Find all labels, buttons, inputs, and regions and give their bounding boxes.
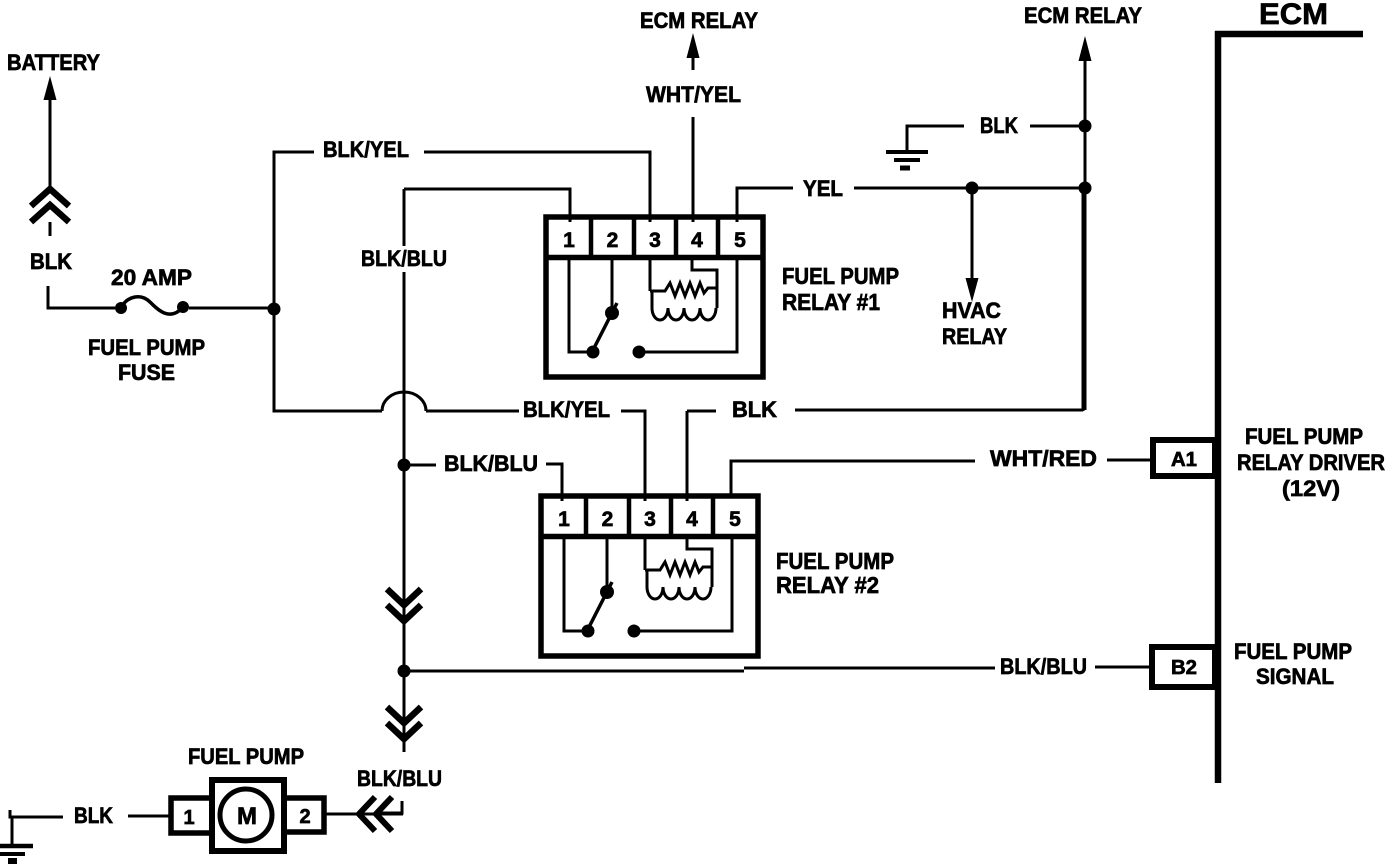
svg-text:BLK: BLK [30,249,72,274]
wire WHT/RED to A1 [1107,459,1151,462]
wire battery drop to fuse [48,286,115,308]
svg-text:2: 2 [299,806,310,828]
svg-text:BLK/BLU: BLK/BLU [361,246,447,271]
relay K1 outer box [546,217,763,377]
svg-text:A1: A1 [1171,449,1197,471]
relay K1 switch blade [592,303,617,352]
relay K1 common contact dot [633,346,646,359]
relay K1 pin4 internal wire [692,260,717,308]
relay K1 terminal row bottom line [546,255,763,261]
arrow to HVAC RELAY [971,194,974,280]
svg-text:SIGNAL: SIGNAL [1256,664,1334,689]
svg-text:4: 4 [686,508,698,531]
wire BLK/BLU to relay2 pin1 [546,464,562,501]
svg-text:BLK/BLU: BLK/BLU [444,451,538,476]
relay K1 coil [652,291,716,320]
wire junction drop to lower feed [274,309,382,411]
wire BLK/YEL to relay2 pin3 [621,411,645,501]
junction node fuse output [268,303,281,316]
inline connector lower (double chevron down) [387,707,421,739]
relay K2 switch lower contact dot [582,625,595,638]
relay K2 pin2 internal wire [606,539,609,589]
wire relay2 pin5 riser to WHT/RED [731,461,975,496]
relay K2 outer box [541,496,758,656]
battery feed arrow [49,97,52,186]
relay K2 common contact dot [628,625,641,638]
fuse F1 terminal dot left [115,302,127,314]
svg-text:RELAY: RELAY [942,324,1007,349]
wire BLK to pump pin1 [128,815,171,818]
fuel pump terminal 1 box [171,798,212,833]
wire ECM relay vertical with arrow [1084,58,1087,410]
fuse terminal dot right [177,301,189,313]
wire BLK/BLU vertical main run [403,272,406,752]
junction node YEL/HVAC [966,182,979,195]
svg-text:BLK/YEL: BLK/YEL [323,137,409,162]
relay K1 pin5 internal wire [645,260,737,352]
svg-text:FUEL PUMP: FUEL PUMP [88,335,205,360]
junction node BLK/BLU tap [398,459,411,472]
svg-text:BLK: BLK [74,803,113,828]
wire BLK label to ECM relay vertical [795,188,1083,411]
svg-text:WHT/RED: WHT/RED [990,446,1097,471]
inline connector (pump side, double chevron left) [359,797,392,831]
wire YEL to ECM relay line [854,187,1085,190]
svg-text:2: 2 [602,508,614,531]
svg-text:ECM: ECM [1259,0,1328,31]
svg-text:BLK/YEL: BLK/YEL [523,397,610,422]
svg-text:RELAY #1: RELAY #1 [782,289,880,315]
relay K2 switch pivot dot [600,585,614,599]
svg-text:FUSE: FUSE [118,360,175,385]
relay K1 pin2 internal wire [611,260,614,310]
svg-text:FUEL PUMP: FUEL PUMP [1245,424,1363,449]
ground (top right) [907,126,964,150]
svg-text:ECM RELAY: ECM RELAY [640,8,758,33]
relay K1 pin3 internal wire [649,260,652,291]
arrow to ECM RELAY (center) [692,56,695,70]
svg-text:BLK: BLK [732,397,777,422]
svg-text:ECM RELAY: ECM RELAY [1024,3,1142,28]
inline connector upper (double chevron down) [387,589,421,621]
svg-text:HVAC: HVAC [942,298,1001,323]
relay K1 switch lower contact dot [587,346,600,359]
relay K2 pin3 internal wire [644,539,647,570]
wire fuse to junction [189,307,274,310]
relay K2 terminal dividers [586,498,713,535]
svg-text:5: 5 [729,508,741,531]
relay K1 coil suppression resistor [650,283,717,296]
svg-text:RELAY #2: RELAY #2 [776,572,879,598]
fuse 20 AMP element [121,297,183,314]
junction node B2 tap [398,665,411,678]
svg-text:RELAY DRIVER: RELAY DRIVER [1237,450,1385,475]
relay K2 pin5 internal wire [640,539,732,631]
svg-text:5: 5 [734,229,746,252]
svg-text:FUEL PUMP: FUEL PUMP [782,263,899,289]
RELAY-2 [541,496,758,656]
svg-text:BLK/BLU: BLK/BLU [357,766,442,791]
svg-text:FUEL PUMP: FUEL PUMP [1234,639,1352,664]
wire BLK/BLU vertical upper segment [403,189,406,246]
svg-text:20 AMP: 20 AMP [111,265,192,290]
svg-text:YEL: YEL [803,176,843,201]
ground (bottom left) [10,810,63,845]
wire connector to riser [381,801,402,813]
svg-text:4: 4 [691,229,703,252]
wire tap to BLK/BLU label [410,464,436,467]
junction node BLK/ECM-relay [1079,120,1092,133]
svg-text:2: 2 [607,229,619,252]
wire hop over BLK/BLU vertical [382,392,426,411]
relay K1 switch pivot dot [605,306,619,320]
relay K2 terminal row bottom line [541,534,758,540]
ECM terminal A1 box [1153,440,1215,476]
svg-text:3: 3 [644,508,656,531]
inline connector (battery side, double chevron up) [31,189,69,222]
svg-text:3: 3 [649,229,661,252]
wire to BLK/YEL label 2 [426,410,519,413]
wire BLK to ECM relay line [1030,125,1085,128]
relay K2 switch blade [587,582,612,631]
svg-text:(12V): (12V) [1282,476,1340,501]
svg-text:FUEL PUMP: FUEL PUMP [188,744,304,769]
svg-text:FUEL PUMP: FUEL PUMP [776,548,894,574]
svg-text:BATTERY: BATTERY [7,50,100,75]
svg-text:1: 1 [558,508,570,531]
svg-text:BLK: BLK [980,113,1018,138]
wire relay1 pin4 riser [692,117,695,222]
svg-text:1: 1 [563,229,575,252]
relay K2 coil suppression resistor [645,562,712,575]
relay K1 terminal dividers [591,219,718,256]
RELAY-1 [546,217,763,377]
svg-text:M: M [237,803,257,830]
svg-text:WHT/YEL: WHT/YEL [646,82,741,107]
svg-text:1: 1 [183,807,194,829]
wire BLK branch to relay2 pin4 [687,411,716,501]
fuel pump motor box [212,780,284,851]
wire relay1 pin5 riser to YEL [737,188,793,222]
ECM terminal B2 box [1152,647,1215,687]
svg-text:B2: B2 [1171,657,1197,679]
wire riser from junction up to BLK/YEL [274,152,314,309]
wire B2 tap to BLK/BLU label [410,668,995,671]
fuel pump motor circle [220,789,272,841]
junction node YEL/ECM-relay [1079,182,1092,195]
svg-text:BLK/BLU: BLK/BLU [1000,654,1087,679]
relay K2 pin1 internal wire [564,539,583,631]
wire BLK/BLU to B2 [1095,666,1151,669]
relay K2 pin4 internal wire [687,539,712,587]
ECM module boundary [1215,31,1222,783]
relay K1 pin1 internal wire [569,260,588,352]
wire BLK/BLU corner to relay1 pin1 [404,189,570,222]
fuel pump terminal 2 box [284,798,324,832]
wire pump pin2 to connector [324,813,403,816]
wire BLK/YEL to relay1 pin3 [424,152,650,222]
relay K2 coil [647,570,711,599]
